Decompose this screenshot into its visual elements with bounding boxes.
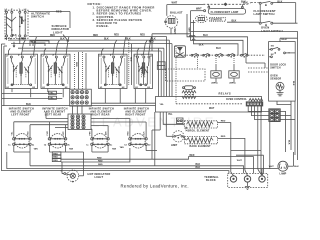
relay coil right [229,71,239,85]
wire BLK bottom 3 [1,171,229,174]
bake element [185,136,248,175]
label left rear switch [42,108,67,117]
wire RED second [61,148,130,162]
wire YEL below switches 2 [2,96,62,100]
infinite switch right front [134,54,153,89]
svg-text:BLK: BLK [196,164,201,166]
svg-text:PUR: PUR [47,131,49,136]
label SURFACE INDICATOR LIGHT [52,24,70,42]
element riser wires [11,119,146,138]
wire RED mid bottom [61,155,254,173]
svg-text:RED: RED [149,42,154,44]
svg-text:BLK: BLK [196,167,201,169]
svg-text:RED: RED [221,120,226,122]
svg-text:BLK: BLK [144,131,146,136]
oven light switch [227,4,298,33]
infinite switch left rear [41,54,70,89]
ground symbol [245,182,250,190]
svg-text:YEL: YEL [160,104,165,106]
svg-text:YEL: YEL [168,114,173,116]
svg-text:RED: RED [98,160,103,162]
svg-text:BLK: BLK [60,39,65,41]
svg-text:BLK: BLK [288,140,290,145]
terminal block [228,173,268,187]
svg-text:RED: RED [140,34,145,36]
svg-text:PNK: PNK [90,131,92,136]
console top edge [149,31,298,160]
oven control connector pins [182,86,196,99]
relay coil left [211,71,221,85]
power feed wire N [4,46,7,106]
svg-text:RELAYS: RELAYS [219,91,231,95]
label TERMINAL BLOCK [204,176,219,182]
svg-text:LIGHT SWITCH: LIGHT SWITCH [261,29,283,33]
oven control board [156,46,262,116]
label right rear switch [89,108,114,117]
fluorescent lamp [191,2,249,15]
svg-text:TAN: TAN [34,148,39,151]
svg-text:OVEN CONTROL: OVEN CONTROL [226,98,247,101]
wires between connectors [73,103,156,114]
wire BLK lower bus [2,103,156,106]
switch H stubs [12,89,146,104]
fluorescent lamp switch [241,0,296,23]
surface element right rear [86,134,113,148]
svg-text:BROIL ELEMENT: BROIL ELEMENT [188,130,210,133]
svg-text:RED: RED [98,164,103,166]
alternate switch [5,9,28,44]
connector block upper [70,89,92,106]
svg-text:RED: RED [53,160,58,162]
svg-text:STARTER: STARTER [211,19,222,22]
label ALTERNATE SWITCH [31,11,50,18]
infinite switch right rear [99,54,128,89]
svg-text:FLUORESCENT LAMP: FLUORESCENT LAMP [211,11,239,14]
watermark [92,115,216,130]
terminal block feed wires [231,150,264,174]
svg-text:(BRN): (BRN) [212,83,218,85]
notice text [88,2,155,28]
wire YEL below switches 1 [2,91,62,95]
svg-text:LAMP: LAMP [280,172,287,175]
svg-text:BLK: BLK [241,0,246,3]
svg-text:LAMP SWITCH: LAMP SWITCH [254,12,275,16]
svg-text:RIGHT FRONT: RIGHT FRONT [125,114,146,117]
svg-text:WHT: WHT [209,108,215,110]
oven sensor [276,81,294,96]
callout arrow to switch [13,42,15,47]
svg-text:RANGE.: RANGE. [97,24,110,28]
limit thermostat [152,112,187,166]
svg-text:LIMIT: LIMIT [171,144,178,147]
boxed RED labels [52,152,61,162]
svg-text:TAN: TAN [112,148,117,151]
relay contacts row [178,53,265,57]
svg-text:BLK: BLK [104,39,109,41]
label RELAYS [219,91,231,95]
svg-text:YEL: YEL [49,93,54,95]
svg-text:WHT: WHT [187,28,189,34]
svg-text:RED: RED [28,131,30,136]
surface element left front [8,134,35,148]
surface element right front [124,134,151,148]
svg-text:GRY: GRY [63,131,65,136]
svg-text:RED: RED [114,34,119,36]
console corner over switch 2 [30,41,49,46]
svg-text:BLK: BLK [31,42,36,44]
svg-text:RED: RED [97,157,102,159]
bus connector [157,62,165,70]
wire BLK bottom 2 [7,152,262,176]
svg-text:LIGHT: LIGHT [53,30,63,34]
broil element [185,120,234,175]
risers between switch 3 and 4 [129,40,132,85]
svg-text:NOTICE:: NOTICE: [88,2,102,6]
footer credit [121,183,189,188]
power feed wire L1 [1,44,5,171]
connector 2x3 [269,109,281,122]
wire bus over infinite switches [8,37,172,56]
svg-text:SENSOR: SENSOR [270,78,281,81]
svg-text:LEFT REAR: LEFT REAR [45,114,62,117]
label right front switch [124,108,149,117]
svg-text:RED: RED [75,62,77,67]
hot indicator light [61,152,111,182]
svg-text:BLK: BLK [185,127,187,132]
svg-text:BLK: BLK [294,166,299,168]
wires strip to connector [248,106,269,175]
svg-text:BAKE ELEMENT: BAKE ELEMENT [190,145,212,148]
svg-text:NO: NO [271,46,275,48]
right side wires [288,101,295,155]
relay wires [198,56,266,82]
label left front switch [9,108,34,117]
svg-text:TAN: TAN [105,131,108,136]
wires connector right side [270,101,295,169]
relay dashed box [166,69,206,81]
svg-text:WHT: WHT [196,8,202,11]
ballast [165,11,183,35]
svg-text:TAN: TAN [120,146,125,149]
oven lamp [237,152,299,175]
svg-text:(BRN): (BRN) [230,83,236,85]
svg-text:LEFT FRONT: LEFT FRONT [11,114,30,117]
svg-text:TAN: TAN [69,148,74,151]
wire alternate switch to console [28,12,70,29]
infinite switch left front [5,54,37,89]
svg-text:BLU: BLU [216,47,221,50]
connector small left of broil [177,118,184,124]
svg-text:RED: RED [56,11,62,14]
wires from lamp area down [187,28,189,34]
svg-text:BLK: BLK [26,103,31,106]
svg-text:BLOCK: BLOCK [206,179,216,182]
wire labels top bus [8,34,156,44]
svg-text:Rendered by LeadVenture, Inc.: Rendered by LeadVenture, Inc. [121,183,189,188]
wires into connector left [14,112,68,128]
svg-text:LIGHT: LIGHT [95,175,104,179]
svg-text:SWITCH: SWITCH [270,67,280,70]
door lock switch [269,42,296,102]
svg-text:YEL: YEL [49,98,54,100]
svg-text:BLK: BLK [292,81,294,86]
center vertical bus wires [159,37,173,97]
svg-text:WHT: WHT [237,160,243,162]
wire WHT to ballast [167,2,204,16]
svg-text:RED: RED [190,155,195,157]
svg-text:BLK: BLK [126,39,131,41]
board connector strip [246,98,263,106]
label RED top-left [56,11,62,14]
svg-text:RED: RED [221,136,226,138]
starter [191,11,226,23]
wires lamp to relays [187,14,248,55]
svg-text:RED: RED [129,57,131,62]
svg-text:BLU: BLU [203,34,208,37]
wire BLK bottom 1 [30,152,244,173]
svg-text:BLK: BLK [199,45,204,47]
svg-text:BALLAST: BALLAST [170,11,183,15]
TAN wire labels [14,146,157,153]
wires out connector right [91,119,146,130]
door lock wires [248,38,298,72]
svg-text:RED: RED [128,131,130,136]
component box small [174,45,203,58]
svg-text:BLK: BLK [232,19,237,22]
surface element left rear [44,134,71,148]
svg-text:WHT: WHT [269,166,275,168]
svg-text:RED: RED [50,35,55,37]
riser wires between switches [75,52,87,89]
svg-text:RED: RED [93,35,98,37]
svg-text:RIGHT REAR: RIGHT REAR [91,114,110,117]
svg-text:SWITCH: SWITCH [31,15,44,19]
connector block lower [68,114,91,130]
